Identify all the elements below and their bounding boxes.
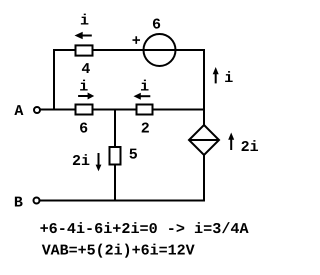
svg-text:2i: 2i [72, 153, 90, 170]
resistor 6 [76, 105, 93, 115]
wire node A row [40, 109, 205, 111]
svg-text:4: 4 [81, 61, 90, 78]
svg-text:i: i [140, 78, 149, 95]
current arrow i (right branch) [213, 67, 219, 83]
svg-text:VAB=+5(2i)+6i=12V: VAB=+5(2i)+6i=12V [42, 242, 195, 259]
svg-text:5: 5 [129, 147, 138, 164]
svg-text:B: B [14, 194, 23, 211]
svg-text:i: i [224, 70, 233, 87]
wire top rail [53, 49, 205, 51]
wire left vertical [53, 49, 55, 111]
svg-text:2: 2 [141, 120, 150, 137]
wire resistor 5 top lead [114, 110, 116, 149]
svg-text:A: A [14, 103, 23, 120]
svg-text:+6-4i-6i+2i=0 -> i=3/4A: +6-4i-6i+2i=0 -> i=3/4A [40, 221, 249, 238]
svg-text:+: + [132, 33, 141, 50]
terminal A [34, 107, 40, 113]
dependent current source 2i (diamond) [189, 125, 219, 155]
voltage source 6V [144, 34, 176, 66]
wire node B row [40, 200, 206, 202]
current arrow 2i down through resistor 5 [96, 153, 102, 171]
svg-text:i: i [80, 13, 89, 30]
resistor 2 [137, 105, 153, 115]
wire dependent source bottom lead [203, 154, 205, 201]
svg-text:6: 6 [79, 121, 88, 138]
svg-text:6: 6 [152, 17, 161, 34]
resistor 4 [76, 45, 93, 55]
current arrow i through resistor 6 [78, 93, 94, 100]
wire right vertical [203, 49, 205, 126]
svg-text:2i: 2i [241, 139, 259, 156]
resistor 5 [110, 147, 121, 165]
current arrow i through resistor 4 [75, 32, 92, 39]
current arrow i through resistor 2 [134, 93, 151, 100]
svg-text:i: i [79, 79, 88, 96]
terminal B [34, 198, 40, 204]
wire resistor 5 bottom lead [114, 164, 116, 201]
current arrow 2i (dependent source) [228, 133, 234, 151]
